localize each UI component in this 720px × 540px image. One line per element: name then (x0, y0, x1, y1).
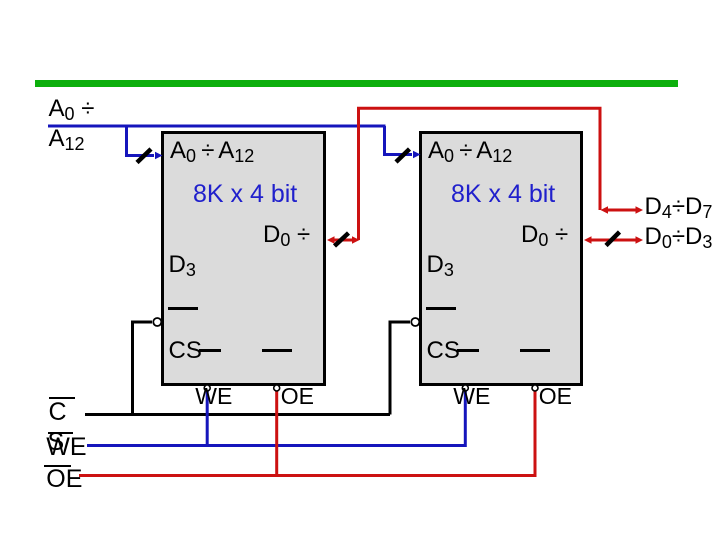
chip U2 body (8K x 4 bit) (419, 131, 583, 386)
U1 pin label WE (195, 385, 232, 408)
U2 pin label A0-A12 (428, 139, 512, 165)
U2 pin label D3 (427, 253, 454, 279)
CS bubble U2 (411, 318, 419, 326)
overline of OE label (44, 465, 71, 467)
net label A12 (left, line 2) (49, 127, 85, 153)
wire: WE control net (blue) (87, 390, 465, 446)
green divider bar (35, 80, 678, 87)
U1 short line above CS (168, 307, 198, 310)
overline of C label (bottom left) (49, 397, 76, 399)
U2 overline line after CS (457, 349, 479, 352)
net label D4-D7 (right) (645, 195, 713, 221)
U1 pin label CS (169, 339, 202, 363)
CS bubble U1 (153, 318, 161, 326)
wire: OE control net (red) (79, 390, 535, 476)
OE pin bubble U1 (274, 385, 280, 391)
U1 overline line before OE (262, 349, 292, 352)
U2 overline line before OE (520, 349, 550, 352)
U2 pin label CS (427, 339, 460, 363)
wire: address branch to U2 (385, 126, 421, 158)
overline of S / WE labels (48, 432, 74, 434)
wire: U1 data stub with double arrows (327, 236, 360, 244)
wire: address branch to U1 (127, 126, 163, 159)
wire: D4-D7 stub with double arrows (601, 206, 644, 214)
U2 label 8K x 4 bit (451, 182, 555, 207)
net label S (of CS, bottom left) (48, 430, 65, 455)
U2 short line above CS (426, 307, 456, 310)
bus slash on U1 address branch (137, 149, 151, 163)
U2 pin label OE (539, 385, 572, 408)
wire: CS control net (black) (85, 322, 410, 415)
bus slash on U2 data stub (606, 232, 620, 246)
U1 pin label A0-A12 (170, 139, 254, 165)
U1 label 8K x 4 bit (193, 182, 297, 207)
U1 pin label OE (281, 385, 314, 408)
U1 pin label D0 (263, 223, 310, 249)
OE pin bubble U2 (532, 385, 538, 391)
WE pin bubble U1 (204, 385, 210, 391)
wire: address bus A0-A12 horizontal (48, 125, 386, 128)
U1 overline line after CS (199, 349, 221, 352)
chip U1 body (8K x 4 bit) (161, 131, 326, 386)
net label OE (bottom left) (46, 467, 82, 492)
U2 pin label D0 (521, 223, 568, 249)
wire: U2 data stub D0-D3 with double arrows (584, 236, 643, 244)
U2 pin label WE (453, 385, 490, 408)
WE pin bubble U2 (462, 385, 468, 391)
net label WE (bottom left) (46, 435, 86, 460)
bus slash on U1 data stub (335, 233, 349, 246)
bus slash on U2 address branch (396, 149, 410, 162)
net label D0-D3 (right) (645, 225, 713, 251)
U1 pin label D3 (169, 253, 196, 279)
wire: data bus from U1 D0-D3 up and over to D4-D7 stub (359, 108, 601, 240)
net label C (of CS, bottom left) (49, 400, 67, 425)
net label A0 (left, line 1) (49, 97, 95, 123)
